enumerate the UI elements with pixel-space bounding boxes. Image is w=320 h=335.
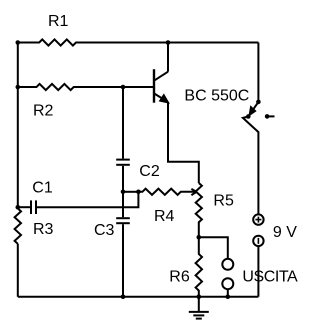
junction bottom rail output [226,294,231,299]
wire battery minus to bottom rail [257,246,259,297]
wire node row to C3 [122,192,124,217]
wire C2 to node row [122,166,124,192]
wire base row with resistor R2 [18,84,153,90]
wire bottom rail [18,296,259,298]
output terminal bottom [222,278,233,289]
wire right rail top to switch [257,43,259,102]
ground [189,297,209,319]
switch top contact [256,100,261,105]
svg-text:C1: C1 [32,179,53,196]
svg-text:C2: C2 [139,163,160,180]
battery BT1 negative terminal [253,236,263,246]
svg-text:R4: R4 [154,208,175,225]
junction bottom rail C3 [121,294,126,299]
wire left rail [17,43,19,297]
wire C1 left lead [18,206,30,208]
resistor R3 [15,208,21,243]
wire collector to top rail [167,43,169,72]
battery BT1 positive terminal [253,214,263,224]
svg-text:R2: R2 [33,103,54,120]
junction R2 C2 column [121,85,126,90]
svg-text:9 V: 9 V [273,224,297,241]
svg-text:R1: R1 [48,13,69,30]
svg-text:BC 550C: BC 550C [184,88,249,105]
switch pivot contact [246,114,251,119]
resistor R4 [138,189,196,195]
capacitor C2 [116,160,130,165]
svg-text:R5: R5 [213,193,234,210]
junction node A C2 side [121,190,126,195]
junction bottom rail ground [197,294,202,299]
resistor R6 [196,237,202,296]
junction C1 left [15,205,20,210]
wire top rail with resistor R1 [18,39,259,45]
switch open contact [265,114,270,119]
wire emitter down and over to R5 [168,102,199,183]
transistor Q1 BC550C [154,69,168,103]
svg-text:USCITA: USCITA [242,269,298,286]
wire C2 column from R2 row down [122,87,124,159]
junction top-left corner [15,40,20,45]
junction R2 left [15,85,20,90]
junction node A R4 side [136,190,141,195]
output terminal top [222,259,233,270]
wire R5 node to output [199,237,228,258]
junction collector at top rail [166,40,171,45]
svg-text:C3: C3 [94,222,115,239]
svg-text:R6: R6 [169,269,190,286]
svg-text:R3: R3 [33,221,54,238]
wire output bottom to rail [227,289,229,297]
capacitor C1 [31,200,36,214]
wire node row horizontal [123,191,138,193]
resistor R5 [196,183,202,237]
capacitor C3 [116,218,130,223]
wire C3 to bottom rail [122,224,124,297]
wire node step down to C1 row [37,192,138,207]
potentiometer wiper arrowhead into R5 [191,189,196,195]
junction R5 R6 output [197,235,202,240]
switch S1 [243,102,275,214]
